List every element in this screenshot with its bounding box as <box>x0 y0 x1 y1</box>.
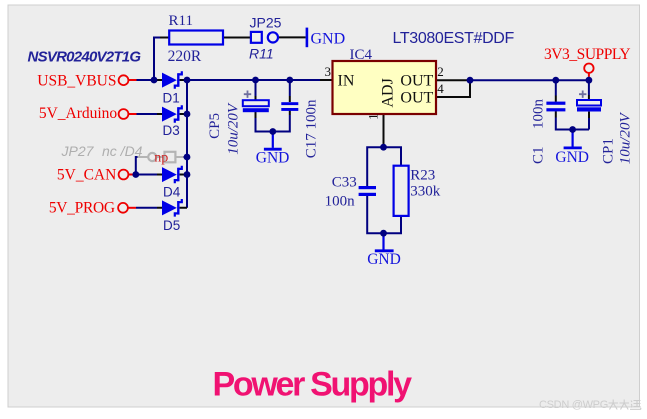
wire 5V_PROG stub <box>128 207 136 209</box>
svg-text:NSVR0240V2T1G: NSVR0240V2T1G <box>28 48 142 65</box>
wire IC ADJ pin <box>383 114 385 147</box>
terminal 3V3_SUPPLY <box>584 63 593 72</box>
wire CP5 top drop <box>255 80 257 96</box>
wire ADJ loop top <box>367 147 401 186</box>
wire 5V_Arduino stub <box>128 113 136 115</box>
wire C1 bottom <box>555 111 557 117</box>
svg-text:Power Supply: Power Supply <box>213 366 413 404</box>
svg-text:10u/20V: 10u/20V <box>225 102 241 155</box>
svg-text:5V_Arduino: 5V_Arduino <box>39 105 118 122</box>
diode D5 <box>162 199 182 233</box>
node D3 output <box>184 111 191 118</box>
svg-text:CP5: CP5 <box>207 113 223 139</box>
svg-text:CP1: CP1 <box>601 138 617 164</box>
svg-text:OUT: OUT <box>400 72 433 89</box>
svg-text:C17 100n: C17 100n <box>303 99 319 158</box>
svg-text:100n: 100n <box>531 99 547 130</box>
svg-text:USB_VBUS: USB_VBUS <box>37 72 116 89</box>
wire CP1 bottom <box>573 118 589 130</box>
capacitor C1 <box>531 99 566 165</box>
wire R11 left pin <box>160 37 169 39</box>
wire C1 drop <box>555 80 557 95</box>
node C1 gnd tap <box>569 126 576 133</box>
svg-text:OUT: OUT <box>400 89 433 106</box>
svg-text:CSDN @WPG: CSDN @WPG <box>539 399 608 411</box>
svg-text:3V3_SUPPLY: 3V3_SUPPLY <box>544 46 630 63</box>
svg-text:JP27: JP27 <box>61 143 95 159</box>
svg-text:GND: GND <box>311 31 346 48</box>
node ADJ join <box>380 144 387 151</box>
ground symbol (ADJ divider) <box>367 233 401 268</box>
node OUT join <box>467 77 474 84</box>
svg-text:330k: 330k <box>410 183 441 199</box>
svg-text:np: np <box>154 150 168 165</box>
svg-text:ADJ: ADJ <box>380 78 397 107</box>
resistor R11 <box>169 31 223 45</box>
jumper JP25 <box>251 32 262 43</box>
node 5V_CAN riser <box>132 171 139 178</box>
terminal 5V_Arduino <box>119 109 129 119</box>
capacitor C17 <box>281 99 319 158</box>
svg-text:220R: 220R <box>168 48 202 65</box>
svg-text:5V_PROG: 5V_PROG <box>49 200 115 217</box>
svg-text:C33: C33 <box>332 175 357 191</box>
svg-text:nc /D4: nc /D4 <box>102 143 143 159</box>
wire 5V_CAN to D4 <box>133 174 157 176</box>
terminal 5V_CAN <box>119 170 129 180</box>
wire C17 top drop <box>289 80 291 96</box>
diode D1 <box>162 71 182 106</box>
svg-text:D4: D4 <box>163 185 181 200</box>
wire CP5 bottom to gnd node <box>255 112 257 118</box>
diode D4 <box>162 166 182 200</box>
ground symbol (CP5/C17) <box>256 132 290 167</box>
node CP1 tap <box>586 77 593 84</box>
wire JP27 to bus <box>184 156 188 158</box>
node divider gnd tap <box>380 230 387 237</box>
svg-text:5V_CAN: 5V_CAN <box>57 167 116 184</box>
svg-text:R11: R11 <box>169 13 193 29</box>
capacitor CP5 (polarized) <box>207 91 269 155</box>
svg-text:D3: D3 <box>163 123 180 138</box>
capacitor CP1 (polarized) <box>577 91 634 165</box>
capacitor C33 <box>325 175 376 210</box>
wire USB_VBUS to D1 <box>137 79 158 81</box>
wire 5V_Arduino to D3 <box>137 113 158 115</box>
wire main rail to IC IN <box>187 79 320 81</box>
diode D3 <box>162 105 182 138</box>
wire output rail <box>470 79 589 81</box>
node D4 output <box>184 171 191 178</box>
svg-text:C1: C1 <box>531 146 547 164</box>
wire R11 riser <box>154 38 160 81</box>
wire USB_VBUS stub <box>128 79 136 81</box>
jumper JP27 (not populated) <box>61 143 184 165</box>
node C1 tap <box>552 77 559 84</box>
wire CP1 top drop <box>588 80 590 95</box>
svg-text:D1: D1 <box>163 91 180 106</box>
terminal 5V_PROG <box>118 203 128 213</box>
svg-text:2: 2 <box>437 64 444 79</box>
node D1 output <box>184 77 191 84</box>
ground symbol (C1/CP1) <box>555 130 589 166</box>
ground port (top, bar style) <box>306 28 309 48</box>
resistor R23 <box>394 166 441 216</box>
node CP5 tap <box>252 77 259 84</box>
wire IC pin4 <box>436 82 470 97</box>
wire 5V_PROG to D5 <box>136 207 157 209</box>
svg-text:IN: IN <box>338 72 355 89</box>
svg-text:GND: GND <box>367 251 401 268</box>
node R11 riser junction <box>151 77 158 84</box>
svg-text:100n: 100n <box>325 194 356 210</box>
svg-text:3: 3 <box>325 64 332 79</box>
svg-text:IC4: IC4 <box>350 47 373 63</box>
svg-text:JP25: JP25 <box>250 15 282 31</box>
svg-text:R11: R11 <box>249 46 274 62</box>
svg-text:GND: GND <box>555 149 589 166</box>
wire R11 to JP25 <box>223 37 251 39</box>
wire IC pin2 <box>436 79 470 81</box>
watermark <box>539 399 641 411</box>
wire JP25 to GND <box>278 36 306 38</box>
svg-text:LT3080EST#DDF: LT3080EST#DDF <box>393 30 515 47</box>
wire 5V_CAN riser to JP27 <box>136 157 138 175</box>
node C17 tap <box>286 77 293 84</box>
svg-text:1: 1 <box>365 113 380 120</box>
node CP5 gnd tap <box>269 128 276 135</box>
op-amp / regulator IC4 <box>325 30 515 120</box>
node JP27 output <box>184 154 191 161</box>
terminal USB_VBUS <box>119 75 129 85</box>
wire 5V_CAN stub <box>128 174 133 176</box>
svg-text:10u/20V: 10u/20V <box>618 112 634 165</box>
svg-text:R23: R23 <box>410 168 435 184</box>
svg-text:D5: D5 <box>163 218 180 233</box>
wire diode output bus <box>186 80 188 208</box>
wire ADJ loop bottom <box>367 196 401 233</box>
svg-text:4: 4 <box>437 81 444 96</box>
svg-text:GND: GND <box>256 149 290 166</box>
wire 3V3 terminal stub <box>588 73 590 77</box>
